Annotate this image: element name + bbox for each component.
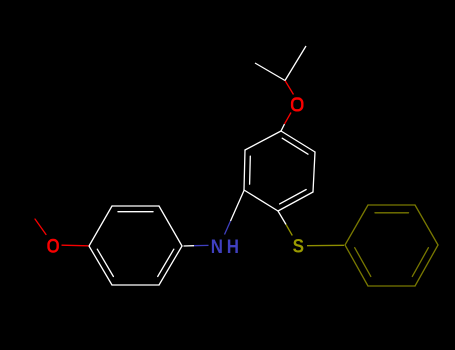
- wire ring1 edge TL-TR: [112, 205, 159, 207]
- bond ring2 T to O2 white part: [281, 124, 285, 131]
- wire ring3 edge BR-BL: [368, 285, 415, 287]
- wire ring1 double bond TL-TR: [118, 211, 153, 213]
- wire ring2 edge B-BR: [278, 192, 313, 211]
- wire ring2 edge T-TL: [245, 131, 281, 150]
- benzene ring 1 (left, 4-methoxyphenyl): [89, 206, 182, 285]
- wire ring2 edge TR-T: [281, 131, 315, 152]
- wire ring1 edge BL-L: [89, 246, 112, 285]
- bond ring1 R to N: [184, 245, 195, 247]
- wire ring2 edge BL-B: [244, 190, 278, 211]
- wire ring1 edge TR-R: [159, 206, 182, 246]
- wire ring1 edge BR-BL: [112, 284, 159, 286]
- wire ring3 edge TL-TR: [368, 204, 415, 206]
- bond N to ring2 white part: [231, 191, 245, 222]
- wire ring2 edge TL-BL: [244, 150, 245, 190]
- wire ring3 edge R-BR: [415, 245, 438, 286]
- wire ring1 double bond BL-L: [97, 249, 113, 276]
- wire ring3 edge BL-L: [345, 245, 368, 286]
- wire ring3 double bond R-BR: [412, 248, 428, 277]
- wire ring2 double bond TL-BL: [249, 156, 252, 184]
- svg-text:N: N: [211, 236, 223, 258]
- wire ring2 double bond TR-T: [282, 138, 308, 154]
- atom O2 label: [292, 99, 302, 111]
- wire ring3 double bond TL-TR: [375, 212, 409, 214]
- wire ring3 double bond BL-L: [355, 248, 371, 277]
- bond ring2 T to O2 red part: [285, 113, 292, 125]
- svg-text:S: S: [293, 235, 304, 257]
- bond ring2 B to S olive part: [286, 225, 292, 236]
- bond N to ring2 blue part: [225, 221, 231, 235]
- wire ring1 double bond R-BR: [158, 249, 174, 276]
- wire ring1 edge L-TL: [89, 206, 112, 246]
- wire bond CH-CH3 right arm: [285, 46, 306, 81]
- wire ring3 edge L-TL: [345, 205, 368, 245]
- benzene ring 3 (right phenyl): [345, 205, 438, 286]
- wire ring2 edge BR-TR: [313, 152, 315, 192]
- methoxy group left: [35, 219, 88, 246]
- wire bond O1-ring1: [62, 244, 88, 247]
- wire bond CH-CH3 left arm: [255, 63, 285, 81]
- bond O2-CH red: [285, 81, 294, 95]
- wire bond CH3-O1: [35, 219, 46, 235]
- bond ring2 B to S white part: [278, 211, 286, 225]
- bond S-ring3: [307, 244, 344, 246]
- atom O1 label: [49, 240, 58, 252]
- wire ring1 edge R-BR: [159, 246, 182, 285]
- benzene ring 2 (central): [244, 131, 315, 211]
- svg-text:H: H: [227, 236, 239, 258]
- wire ring2 double bond B-BR: [280, 190, 307, 204]
- wire ring3 edge TR-R: [415, 205, 438, 245]
